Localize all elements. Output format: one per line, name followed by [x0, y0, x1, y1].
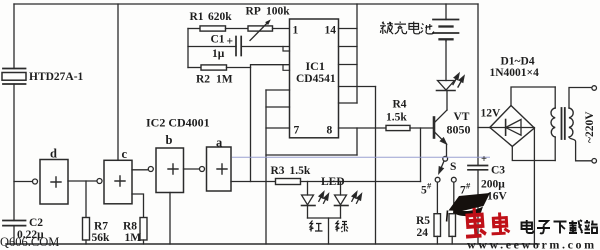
svg-text:Q606.COM: Q606.COM: [0, 235, 59, 249]
svg-text:www.eeworm.com: www.eeworm.com: [467, 238, 597, 250]
capacitor C2: [3, 221, 26, 226]
svg-text:R3: R3: [271, 165, 285, 177]
rung y64.5: [339, 64, 358, 66]
svg-text:8050: 8050: [447, 123, 471, 137]
svg-text:VT: VT: [454, 111, 470, 123]
pin 7 stub: [266, 127, 290, 129]
svg-text:HTD27A-1: HTD27A-1: [29, 71, 84, 83]
svg-text:C2: C2: [29, 217, 43, 229]
wire gate c output to gate b: [132, 169, 148, 171]
wire junction down to R7: [85, 181, 87, 218]
charging indicator LED: [437, 41, 463, 91]
wire bridge bottom to transformer: [512, 146, 555, 160]
switch blade arrowhead: [437, 167, 443, 174]
svg-text:D1~D4: D1~D4: [501, 56, 535, 68]
wire R7 to bus: [85, 240, 87, 244]
svg-text:R7: R7: [94, 221, 108, 233]
wire input to gate d: [14, 181, 32, 183]
LED green branch: [335, 182, 360, 219]
pin 14 rung: [339, 28, 358, 30]
watermark 电子下载站: [522, 220, 598, 234]
gate b: [148, 148, 183, 193]
svg-text:1.5k: 1.5k: [290, 165, 311, 177]
svg-text:+: +: [481, 154, 487, 165]
svg-text:1N4001×4: 1N4001×4: [490, 67, 540, 79]
svg-text:200μ: 200μ: [481, 179, 505, 191]
wire gate b bottom to bus: [169, 193, 171, 245]
svg-text:R2: R2: [196, 74, 210, 86]
oscillator left vertical: [187, 29, 189, 68]
svg-text:R4: R4: [393, 99, 407, 111]
svg-text:620k: 620k: [208, 11, 232, 23]
svg-text:#: #: [466, 181, 471, 191]
pin 8 wire to R4: [339, 127, 387, 129]
pin stub y107: [266, 106, 290, 108]
svg-text:24: 24: [417, 227, 429, 239]
right pins ladder bus: [356, 4, 358, 103]
wire LED join to bus: [328, 218, 330, 244]
svg-text:100k: 100k: [266, 6, 290, 18]
battery cells: [433, 4, 459, 41]
svg-text:R1: R1: [190, 11, 204, 23]
wire bridge top to transformer: [511, 87, 555, 106]
wire gate b output to gate a: [184, 168, 200, 170]
LED red branch: [302, 182, 327, 219]
switch S: [435, 156, 456, 182]
gate c: [97, 160, 132, 204]
resistor R4: [386, 125, 433, 130]
wire gate c top to VDD rail: [117, 4, 119, 160]
svg-text:8: 8: [327, 125, 333, 137]
svg-text:R8: R8: [123, 221, 137, 233]
svg-text:IC2 CD4001: IC2 CD4001: [146, 116, 210, 130]
svg-text:C1: C1: [211, 34, 225, 46]
svg-text:LED: LED: [321, 176, 345, 188]
charge LED arrowheads: [454, 72, 461, 79]
svg-text:1: 1: [293, 25, 299, 37]
resistor R7: [83, 218, 90, 241]
wire base line drop: [420, 128, 422, 182]
capacitor C3: [468, 166, 488, 245]
label battery 被充电池: [380, 22, 434, 35]
resistor R3: [276, 179, 421, 185]
IC1 CD4541 body: [290, 19, 339, 138]
pin bracket left lower: [283, 65, 290, 71]
transistor VT 8050: [434, 91, 447, 156]
potentiometer RP: [248, 22, 290, 40]
svg-text:IC1: IC1: [306, 59, 325, 73]
svg-text:1.5k: 1.5k: [386, 112, 407, 124]
svg-text:1M: 1M: [125, 232, 142, 244]
gate a: [200, 147, 232, 191]
wire left rail middle: [13, 84, 15, 221]
wire VDD bend down 12V rail: [477, 4, 479, 166]
rung y103: [339, 102, 358, 104]
pin 8 drop: [356, 128, 358, 155]
transformer T: [551, 86, 597, 163]
watermark 虫 two: [491, 212, 510, 234]
wire bottom ground bus: [6, 243, 539, 245]
rung y46.5: [339, 46, 358, 48]
svg-text:b: b: [166, 133, 173, 147]
resistor R8: [140, 218, 147, 241]
svg-text:1μ: 1μ: [212, 48, 225, 60]
long vertical to bus: [375, 87, 377, 245]
feedback vertical from R2 line to gate a output: [250, 68, 252, 182]
wire gate d output to gate c: [68, 180, 97, 182]
resistor R6: [449, 182, 456, 244]
wire gate c to R8: [132, 194, 144, 218]
wire top VDD rail: [14, 3, 478, 5]
svg-text:#: #: [427, 181, 432, 191]
svg-text:7: 7: [294, 125, 300, 137]
wire pin8 return to left bus: [266, 154, 357, 156]
wire R8 to bus: [143, 240, 145, 244]
wire left rail lower: [13, 226, 15, 244]
piezo HTD27A-1: [2, 69, 26, 85]
svg-text:1M: 1M: [216, 74, 233, 86]
label red LED 红: [310, 221, 349, 233]
svg-text:C3: C3: [491, 165, 505, 177]
scan artifact blue line: [232, 156, 490, 158]
svg-text:d: d: [50, 147, 57, 161]
resistor R2: [188, 65, 290, 70]
watermark 虫 one: [464, 207, 486, 237]
watermark cap logo: [447, 193, 490, 222]
capacitor C1: [188, 37, 290, 56]
svg-text:a: a: [216, 136, 223, 150]
svg-text:R5: R5: [416, 215, 430, 227]
LED red arrowheads: [319, 191, 326, 198]
svg-text:RP: RP: [246, 6, 261, 18]
bridge rectifier D1-D4: [490, 106, 535, 147]
RP arrowhead: [265, 18, 272, 25]
pin bracket left upper: [283, 47, 290, 52]
svg-text:12V: 12V: [481, 108, 502, 120]
wire left rail upper: [13, 4, 15, 69]
svg-text:14: 14: [325, 25, 337, 37]
svg-text:CD4541: CD4541: [296, 73, 336, 85]
resistor R5: [434, 182, 441, 244]
wire gate a output to R3: [231, 181, 276, 183]
pin stub y90: [266, 89, 290, 91]
left pins bus: [265, 90, 267, 244]
wire bridge right to bus: [533, 128, 535, 244]
emitter arrowhead: [441, 138, 448, 145]
svg-text:56k: 56k: [92, 232, 111, 244]
svg-text:+: +: [227, 36, 234, 48]
svg-text:~220V: ~220V: [584, 111, 596, 143]
LED green arrowheads: [352, 191, 359, 198]
svg-text:S: S: [450, 161, 456, 173]
LED cathodes join: [308, 217, 341, 219]
gate d: [33, 160, 69, 205]
resistor R1: [188, 26, 248, 31]
svg-text:c: c: [122, 147, 128, 161]
wire 12V to bridge: [478, 127, 490, 129]
label green LED 绿: [336, 221, 349, 233]
rung y86.5 extended: [339, 86, 376, 88]
svg-text:16V: 16V: [487, 191, 508, 203]
